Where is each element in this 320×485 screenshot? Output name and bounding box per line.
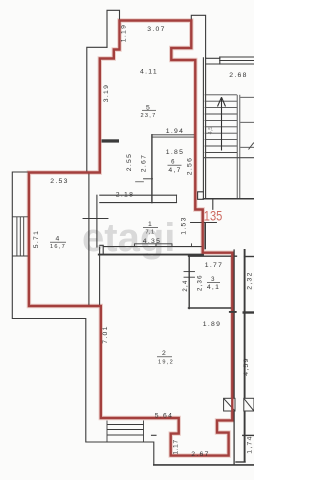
outer wall top-left step: [107, 10, 120, 47]
svg-text:16,7: 16,7: [50, 244, 66, 250]
room 5 underline: [142, 109, 156, 111]
room 6 underline: [168, 164, 182, 166]
room 2 underline: [157, 356, 172, 358]
svg-text:1.53: 1.53: [181, 216, 188, 234]
svg-text:3: 3: [211, 277, 216, 283]
niche tick: [83, 218, 108, 220]
room 4 underline: [50, 241, 66, 243]
svg-text:2.67: 2.67: [141, 154, 148, 172]
svg-text:1,74: 1,74: [247, 435, 254, 453]
svg-text:4,5: 4,5: [208, 127, 214, 135]
room6 left wall: [151, 135, 153, 203]
room3 bottom wall: [189, 307, 234, 309]
room3 left wall: [188, 255, 190, 309]
svg-text:1.94: 1.94: [166, 128, 184, 135]
room4 right wall outer line: [88, 173, 90, 306]
svg-text:7,1: 7,1: [146, 230, 155, 236]
svg-text:2.67: 2.67: [191, 451, 209, 458]
svg-text:23,7: 23,7: [140, 113, 156, 119]
room6 top wall: [152, 134, 195, 136]
wall hall/room2 left step: [100, 245, 103, 254]
svg-text:2,32: 2,32: [246, 271, 253, 289]
svg-text:4.11: 4.11: [140, 69, 158, 76]
stair bottom edge: [203, 157, 254, 159]
svg-text:2.18: 2.18: [116, 192, 134, 199]
svg-text:2.55: 2.55: [126, 153, 133, 171]
svg-text:19,2: 19,2: [158, 359, 174, 365]
outer wall bottom edge: [154, 464, 254, 466]
ventilation shaft 2: [244, 398, 254, 411]
svg-text:4,59: 4,59: [243, 357, 250, 375]
outer wall top-right: [191, 15, 205, 58]
right room middle wall: [244, 311, 254, 313]
svg-text:4: 4: [55, 236, 60, 243]
hall left wall lower: [99, 247, 101, 306]
svg-text:etagi: etagi: [82, 216, 175, 260]
right room top wall: [245, 256, 254, 258]
door bumps hall/room2: [135, 244, 173, 247]
stair steps right flight: [240, 97, 254, 147]
entry underline: [191, 222, 217, 224]
window left: [12, 217, 29, 256]
entry door stub: [212, 200, 214, 210]
wall tick at nook: [230, 311, 236, 313]
room3 top wall: [189, 255, 237, 257]
corridor left wall lower: [233, 250, 235, 464]
svg-text:2.56: 2.56: [187, 157, 194, 175]
stair arrow: [218, 97, 226, 150]
room4 right wall inner line: [96, 195, 98, 247]
stair flight separator: [236, 95, 238, 199]
svg-text:1.77: 1.77: [205, 262, 223, 269]
room3 door ticks: [184, 271, 195, 273]
ventilation shaft 1: [224, 398, 235, 411]
svg-text:5.64: 5.64: [155, 412, 173, 419]
svg-text:5.71: 5.71: [33, 230, 40, 248]
svg-text:1.89: 1.89: [203, 321, 221, 328]
corridor left wall upper: [202, 58, 204, 199]
room 3 underline: [207, 282, 220, 284]
entry hall right wall: [204, 224, 206, 249]
stair steps left flight: [205, 95, 237, 153]
svg-text:1.85: 1.85: [166, 149, 184, 156]
wall room5/6 to hall bottom line: [100, 202, 177, 204]
room 1 underline: [143, 227, 158, 229]
corridor right wall lower: [244, 250, 246, 462]
svg-text:3.19: 3.19: [103, 84, 110, 102]
door jamb hall: [176, 195, 178, 202]
corridor right wall upper: [205, 58, 207, 199]
landing top lines: [220, 56, 254, 58]
svg-text:1: 1: [148, 221, 153, 228]
svg-text:3.07: 3.07: [147, 26, 165, 33]
apartment red boundary halo: [29, 21, 232, 456]
svg-text:4,7: 4,7: [168, 167, 181, 174]
apartment red boundary: [29, 21, 232, 456]
svg-text:2,36: 2,36: [197, 274, 203, 291]
outer wall jamb tick bottom: [152, 434, 157, 436]
svg-text:1.17: 1.17: [173, 439, 180, 454]
small room top wall bottom right: [243, 434, 254, 436]
svg-text:2.53: 2.53: [50, 178, 68, 185]
svg-text:6: 6: [171, 160, 176, 166]
small wall bottom right: [236, 461, 245, 463]
room6 door tick: [144, 178, 153, 180]
wall hall/room2 lower line: [99, 254, 203, 256]
svg-text:135: 135: [204, 209, 223, 225]
window bottom: [107, 421, 144, 443]
landing bottom wall: [203, 198, 254, 200]
svg-text:7.01: 7.01: [102, 325, 109, 343]
room5 wall stub: [102, 139, 120, 142]
svg-text:2,4: 2,4: [183, 279, 189, 291]
svg-text:4.35: 4.35: [143, 238, 161, 245]
wall chunk right of door room5: [198, 192, 204, 200]
wall hall/room2 upper line: [103, 246, 203, 248]
svg-text:1.19: 1.19: [120, 24, 127, 42]
svg-text:4,1: 4,1: [207, 284, 220, 291]
outer wall left side: [12, 47, 154, 465]
wall room5/6 to hall top line: [100, 194, 177, 196]
svg-text:2: 2: [162, 350, 167, 357]
wall tick at nook over red: [230, 311, 236, 313]
stair small arrow right: [249, 143, 254, 150]
svg-text:2.68: 2.68: [229, 72, 247, 79]
staircase: [203, 95, 254, 199]
